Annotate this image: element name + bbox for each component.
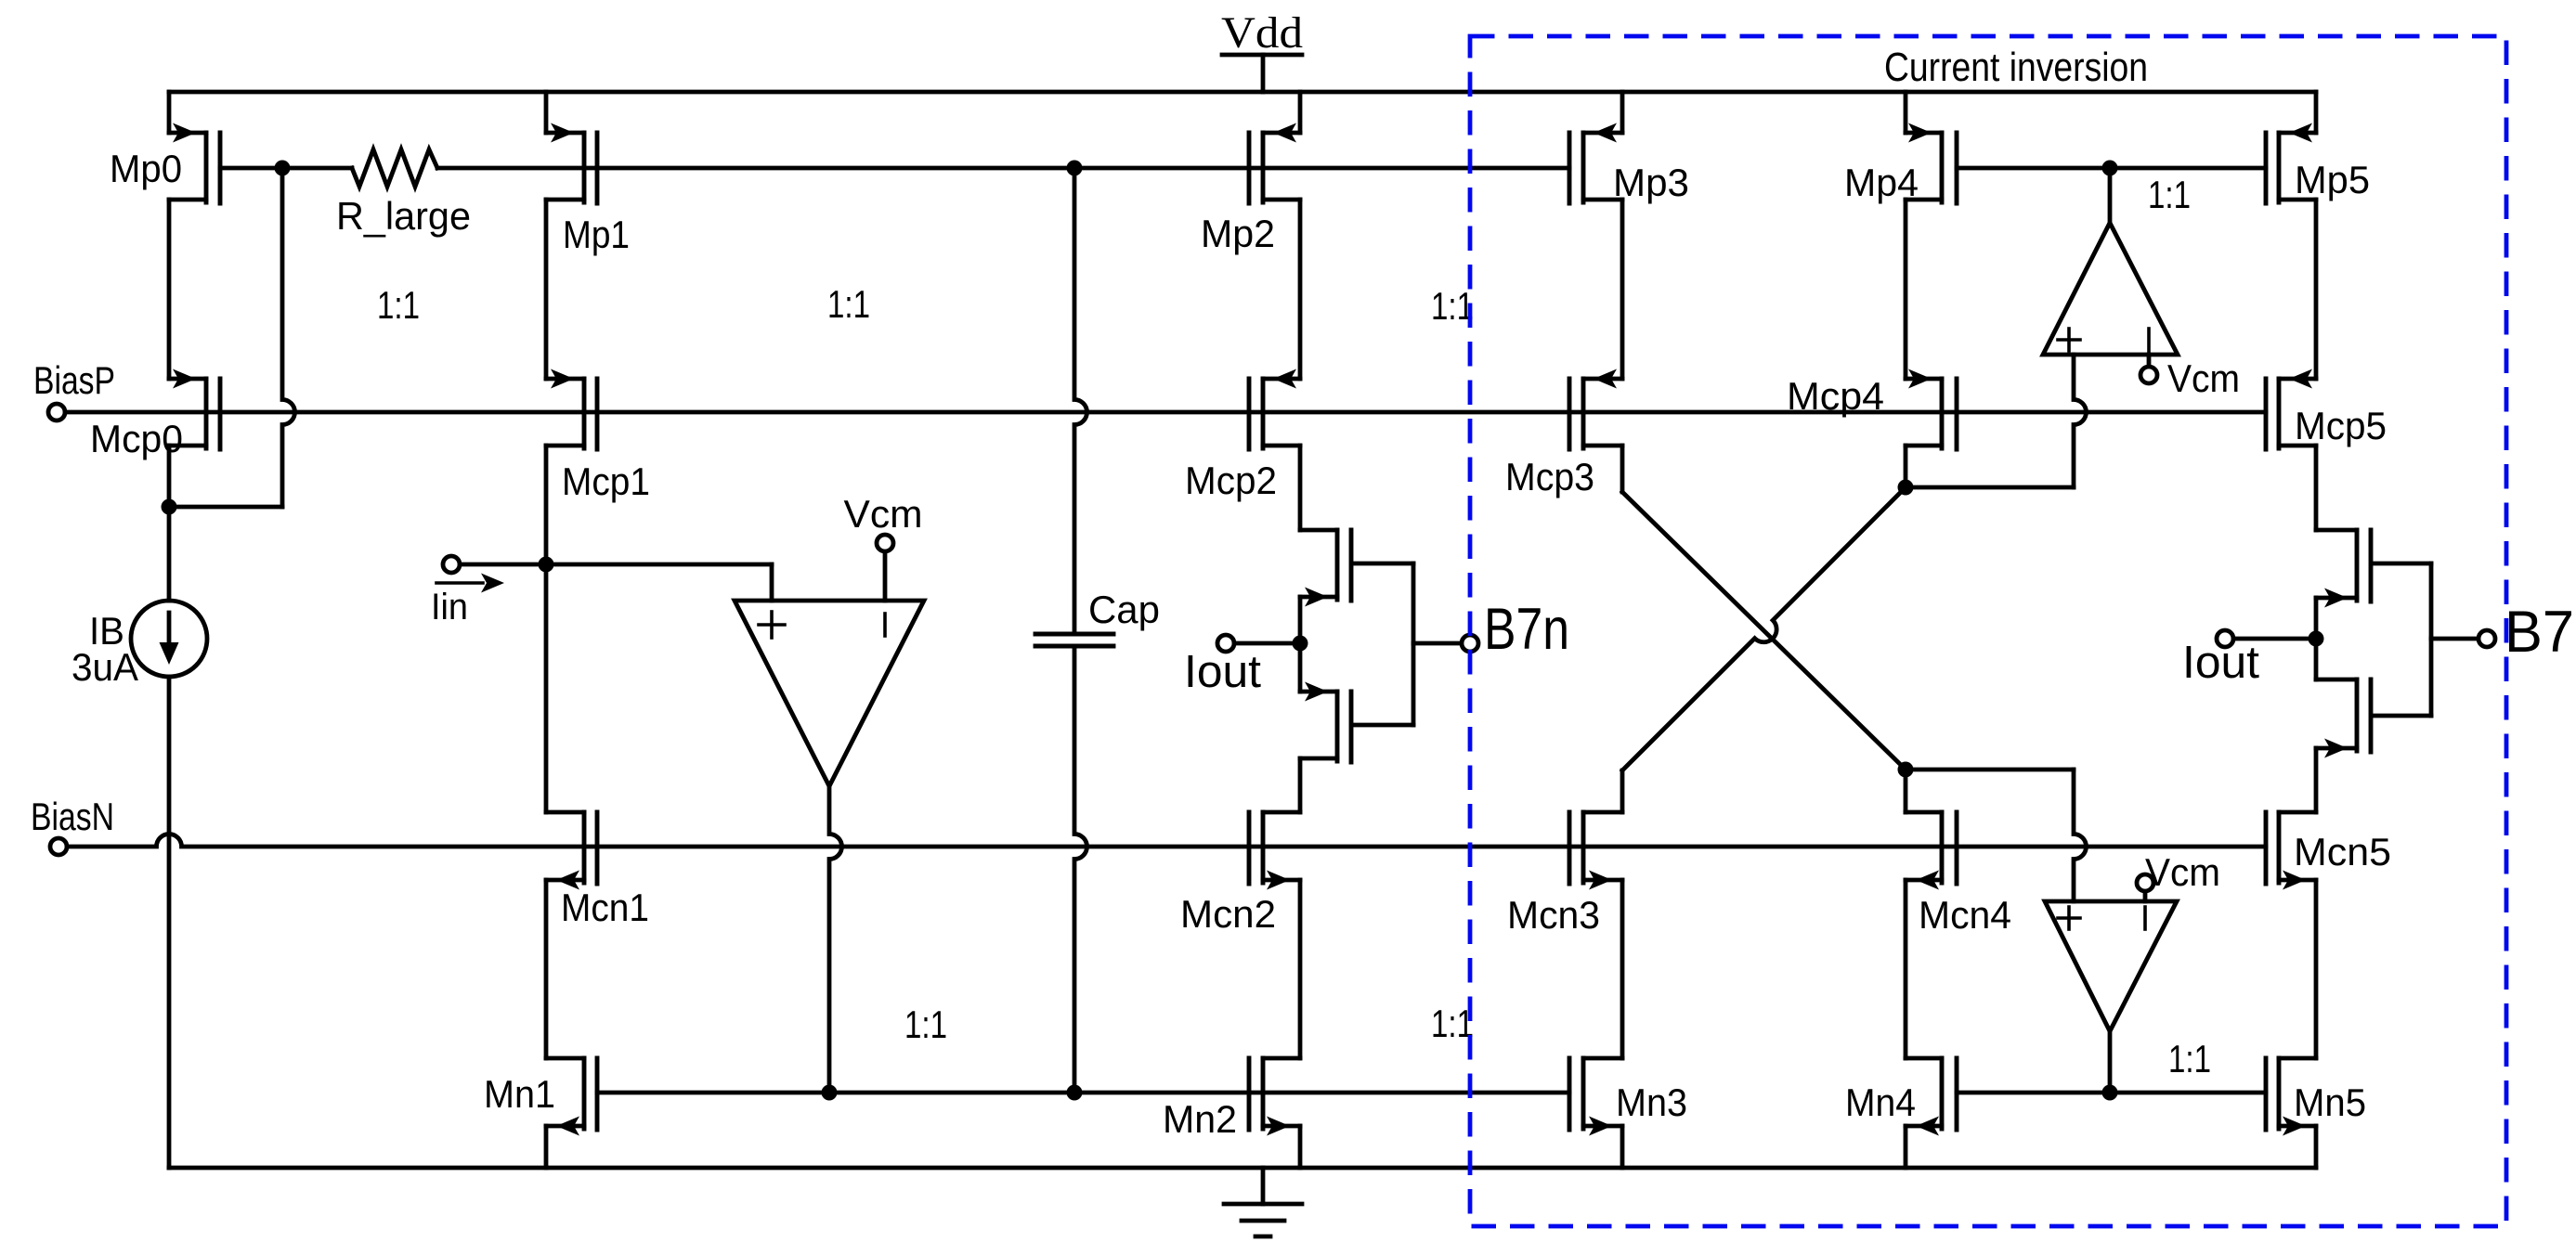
svg-text:Iout: Iout [2182,638,2259,688]
svg-text:Vdd: Vdd [1221,8,1303,58]
svg-text:1:1: 1:1 [1431,1002,1474,1045]
svg-text:Vcm: Vcm [2167,356,2240,400]
svg-text:Mcp2: Mcp2 [1185,459,1277,502]
svg-text:Mcp4: Mcp4 [1787,374,1884,418]
svg-text:Mp5: Mp5 [2295,158,2370,201]
svg-text:Mcn1: Mcn1 [561,886,649,929]
svg-text:BiasP: BiasP [33,358,115,402]
svg-text:Mcp0: Mcp0 [90,417,183,460]
svg-text:1:1: 1:1 [377,283,420,327]
svg-text:Vcm: Vcm [844,492,923,536]
svg-text:Mn3: Mn3 [1616,1080,1687,1124]
svg-text:3uA: 3uA [72,645,138,689]
svg-text:1:1: 1:1 [2148,173,2191,216]
svg-text:B7n: B7n [1484,597,1569,662]
svg-text:Mp2: Mp2 [1201,212,1275,255]
svg-text:Mp3: Mp3 [1613,161,1689,204]
svg-text:Current inversion: Current inversion [1884,45,2148,90]
svg-text:Mn1: Mn1 [484,1072,555,1116]
svg-text:Mp1: Mp1 [563,213,630,256]
svg-text:Mcn5: Mcn5 [2294,830,2391,873]
svg-text:Mcp3: Mcp3 [1505,455,1594,498]
svg-text:Mp0: Mp0 [110,147,182,190]
svg-text:1:1: 1:1 [904,1003,947,1046]
svg-text:Mcp1: Mcp1 [562,459,650,503]
svg-text:BiasN: BiasN [31,795,114,838]
svg-text:1:1: 1:1 [827,282,870,326]
svg-text:Iout: Iout [1184,647,1261,697]
svg-text:R_large: R_large [336,194,471,238]
svg-text:Mp4: Mp4 [1844,161,1919,204]
svg-text:Mcn4: Mcn4 [1919,893,2011,937]
svg-text:1:1: 1:1 [1431,284,1474,328]
svg-text:Mn2: Mn2 [1163,1097,1237,1141]
svg-text:Mcp5: Mcp5 [2295,404,2387,447]
svg-text:1:1: 1:1 [2168,1037,2211,1080]
svg-text:Mcn2: Mcn2 [1180,892,1276,936]
svg-text:Mn4: Mn4 [1845,1080,1916,1124]
svg-text:B7: B7 [2504,600,2574,665]
svg-text:Mn5: Mn5 [2294,1080,2366,1124]
svg-text:Iin: Iin [431,587,468,627]
svg-text:Cap: Cap [1088,588,1160,631]
svg-text:Vcm: Vcm [2145,850,2220,894]
svg-text:Mcn3: Mcn3 [1507,893,1600,937]
